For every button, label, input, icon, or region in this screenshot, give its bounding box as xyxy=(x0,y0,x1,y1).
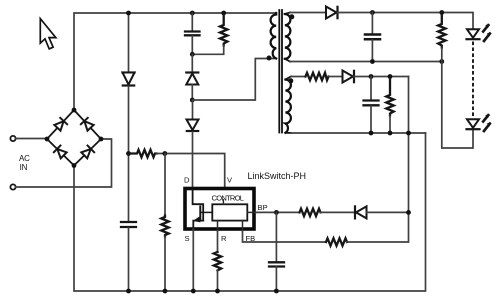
wire BP pin row xyxy=(256,211,300,213)
diode series D3 xyxy=(187,100,199,188)
resistor LED parallel R7 xyxy=(438,13,445,48)
wire clamp res bottom xyxy=(192,46,223,55)
wire output cap top lead xyxy=(371,13,373,34)
wire source pin S xyxy=(192,229,194,291)
transformer T1 core xyxy=(279,10,282,133)
node bias polarity dot xyxy=(288,78,293,83)
node drain xyxy=(190,98,195,103)
resistor BP R6 xyxy=(300,209,321,216)
wire bias res lower lead xyxy=(389,116,391,134)
wire R internal xyxy=(217,221,219,231)
resistor clamp R3 xyxy=(220,13,227,46)
wire bottom primary ground rail xyxy=(74,133,426,291)
wire bias return row xyxy=(291,132,426,134)
transistor internal MOSFET Q1 xyxy=(193,190,213,229)
wire drain to primary bottom xyxy=(192,59,276,101)
svg-text:FB: FB xyxy=(246,234,256,243)
resistor bias load R9 xyxy=(386,77,393,116)
wire bias cap lower lead xyxy=(370,106,372,133)
bridge rectifier BR1 xyxy=(47,110,101,166)
wire secondary top row right xyxy=(338,13,474,30)
wire bias mid xyxy=(329,76,343,78)
wire divider column xyxy=(164,154,166,216)
node clamp res top xyxy=(221,11,226,16)
node bias return junction xyxy=(406,131,411,136)
svg-text:BP: BP xyxy=(258,203,268,212)
node V-feed left xyxy=(126,151,131,156)
node bias cap bottom xyxy=(369,131,374,136)
node top rail line-sense tap xyxy=(126,11,131,16)
terminal AC input top xyxy=(10,136,15,141)
diode output D5 xyxy=(326,7,338,19)
node BP bias junction xyxy=(406,210,411,215)
op IC LinkSwitch-PH U1 body xyxy=(185,189,254,230)
wire secondary return row xyxy=(290,61,442,63)
node bias res bottom xyxy=(388,131,393,136)
wire BP cap upper lead xyxy=(275,212,277,261)
wire BP internal xyxy=(247,211,256,213)
wire FB internal xyxy=(242,221,244,231)
wire FB to bias node xyxy=(347,77,409,243)
wire BP cap to ground xyxy=(275,267,277,291)
capacitor bias C5 xyxy=(364,101,379,106)
resistor V-feed R1 xyxy=(129,150,157,157)
wire line-sense column xyxy=(128,13,130,72)
diode BP D4 xyxy=(355,206,367,218)
diode clamp D2 xyxy=(186,54,198,100)
node bridge right xyxy=(99,137,104,142)
terminal AC input bottom xyxy=(10,184,15,189)
node LED return junction xyxy=(439,59,444,64)
wire FB pin routing xyxy=(243,231,327,242)
wire bias right xyxy=(354,76,409,78)
node primary polarity dot xyxy=(267,56,272,61)
cursor pointer arrow xyxy=(40,19,56,49)
wire bias top row xyxy=(291,76,306,78)
svg-text:V: V xyxy=(227,176,233,185)
resistor R pin R4 xyxy=(214,252,221,271)
wire LED return riser xyxy=(442,48,473,149)
node ground BP cap xyxy=(274,289,279,294)
svg-text:AC: AC xyxy=(19,154,30,163)
wire top DC bus rail xyxy=(74,13,276,110)
svg-text:R: R xyxy=(221,234,227,243)
node ground divider xyxy=(163,289,168,294)
wire R pin lead xyxy=(217,231,219,252)
svg-text:D: D xyxy=(184,176,190,185)
wire secondary top row xyxy=(290,12,326,14)
IC control box xyxy=(212,204,247,220)
LED D7 xyxy=(467,115,491,132)
node clamp cap top xyxy=(190,11,195,16)
node output cap bottom xyxy=(370,59,375,64)
transformer T1 primary winding xyxy=(271,13,277,59)
node LED res top xyxy=(439,10,444,15)
resistor FB R5 xyxy=(326,238,347,245)
node output cap top xyxy=(370,10,375,15)
node BP cap tap xyxy=(274,210,279,215)
node bridge left xyxy=(45,137,50,142)
node bias cap top xyxy=(369,74,374,79)
node clamp bottom xyxy=(190,52,195,57)
wire R pin to ground xyxy=(217,271,219,292)
svg-text:LinkSwitch-PH: LinkSwitch-PH xyxy=(248,171,307,181)
LED D6 xyxy=(467,25,491,42)
wire output cap bottom lead xyxy=(371,40,373,62)
svg-text:CONTROL: CONTROL xyxy=(212,194,245,203)
wire V-feed to V pin xyxy=(157,154,225,189)
capacitor input C1 xyxy=(121,222,136,227)
wire line-sense column lower xyxy=(128,87,130,222)
wire input cap to ground xyxy=(128,228,130,291)
node bridge bottom xyxy=(72,163,77,168)
node ground R pin xyxy=(215,289,220,294)
node bias res top xyxy=(388,74,393,79)
capacitor clamp C2 xyxy=(185,32,200,36)
diode bias D8 xyxy=(343,71,355,83)
svg-text:IN: IN xyxy=(20,163,28,172)
diode line-sense D1 xyxy=(123,73,135,86)
resistor bias R8 xyxy=(306,73,329,80)
node secondary polarity dot xyxy=(289,14,294,19)
wire BP right xyxy=(367,211,409,213)
wire AC bottom lead xyxy=(16,139,112,187)
resistor divider R2 xyxy=(161,216,168,237)
node bridge top xyxy=(72,108,77,113)
wire divider to ground xyxy=(164,237,166,292)
node ground source xyxy=(191,289,196,294)
capacitor output C4 xyxy=(365,35,380,40)
svg-text:S: S xyxy=(185,234,190,243)
node ground input cap xyxy=(126,289,131,294)
wire BP mid xyxy=(321,211,355,213)
wire LED string dotted xyxy=(472,43,474,118)
transformer T1 bias winding xyxy=(285,77,291,134)
wire control box to label xyxy=(222,200,224,205)
transformer T1 secondary winding xyxy=(285,13,291,62)
wire bias cap upper lead xyxy=(370,77,372,100)
wire clamp cap top lead xyxy=(191,13,193,31)
wire AC top lead xyxy=(16,138,47,140)
wire clamp cap bottom lead xyxy=(191,36,193,54)
node V-feed right xyxy=(162,151,167,156)
capacitor BP C3 xyxy=(269,262,284,266)
